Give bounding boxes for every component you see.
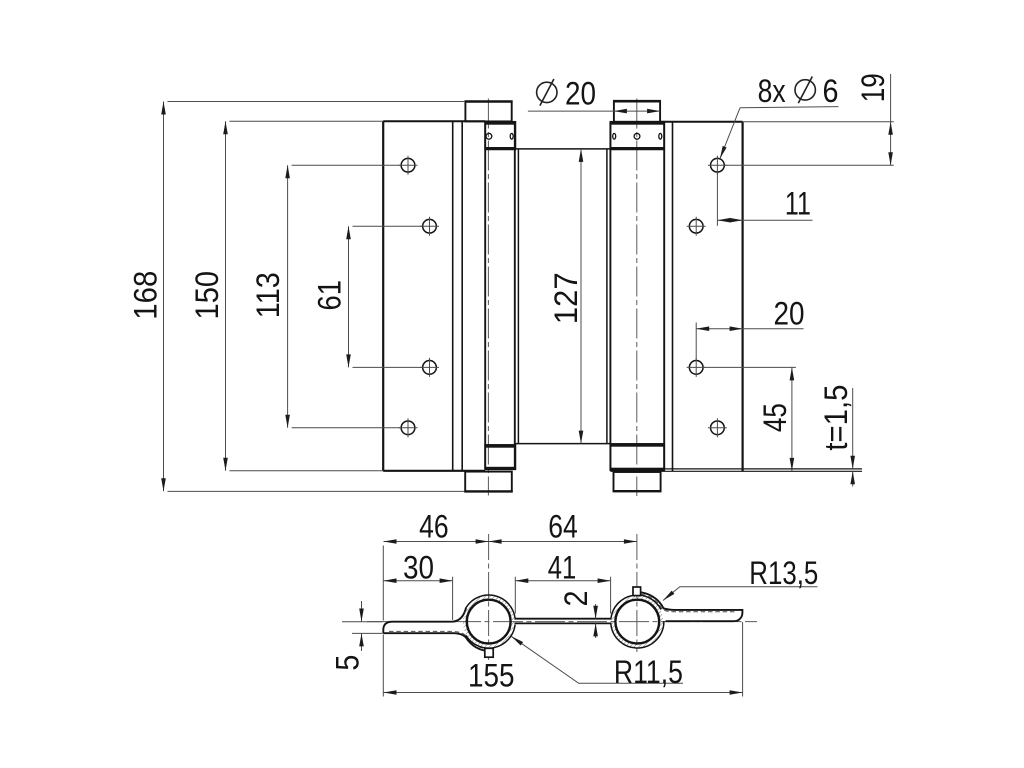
- svg-text:2: 2: [558, 591, 594, 607]
- left barrel top collar: [485, 122, 515, 150]
- svg-text:30: 30: [403, 549, 434, 585]
- right leaf profile: [638, 592, 742, 621]
- left barrel bottom collar: [485, 445, 515, 469]
- mounting holes left plate (8x d6): [399, 156, 440, 438]
- svg-text:41: 41: [548, 549, 577, 585]
- right knuckle ring: [611, 595, 664, 648]
- svg-text:6: 6: [823, 73, 839, 109]
- left knuckle ring: [464, 595, 515, 648]
- svg-text:45: 45: [757, 403, 793, 432]
- right knuckle vertical centerline: [636, 534, 638, 652]
- dimension t=1,5: [818, 385, 855, 487]
- svg-text:19: 19: [855, 73, 891, 102]
- dimension 2 (web thickness): [558, 591, 598, 639]
- svg-text:150: 150: [189, 271, 225, 320]
- svg-text:11: 11: [785, 186, 811, 222]
- svg-text:64: 64: [548, 509, 578, 545]
- left knuckle vertical centerline: [488, 534, 490, 660]
- dimension 113: [250, 165, 401, 428]
- svg-text:20: 20: [565, 76, 596, 112]
- dimension 46: [383, 509, 637, 621]
- right barrel centerline: [636, 99, 638, 497]
- left knuckle sheet-end tab: [485, 648, 493, 657]
- dimension 30: [384, 549, 453, 620]
- mounting holes right plate (8x d6): [687, 156, 727, 438]
- left leaf curl edge: [461, 121, 463, 470]
- right barrel silhouette: [610, 122, 664, 470]
- left leaf plate: [383, 121, 485, 471]
- top cap right: [613, 101, 661, 122]
- horizontal centerline: [367, 621, 757, 623]
- right barrel bottom collar: [610, 444, 664, 470]
- right knuckle sheet-end tab: [633, 587, 641, 596]
- dimension 19: [725, 73, 894, 165]
- label R13,5 with leader: [663, 555, 818, 600]
- connecting web: [515, 619, 612, 624]
- svg-text:t=1,5: t=1,5: [818, 385, 854, 451]
- svg-text:R11,5: R11,5: [614, 654, 683, 690]
- left barrel silhouette: [485, 122, 515, 470]
- dimension d20 (top cap): [528, 76, 660, 114]
- svg-text:8x: 8x: [758, 73, 786, 109]
- svg-text:5: 5: [330, 655, 366, 671]
- dimension 168: [128, 102, 465, 492]
- svg-text:168: 168: [128, 271, 164, 320]
- dimension 61: [312, 226, 423, 367]
- dimension 64: [489, 509, 637, 545]
- svg-text:113: 113: [250, 272, 286, 318]
- right barrel top collar: [610, 122, 664, 150]
- dimension 127: [548, 149, 584, 444]
- left barrel centerline: [487, 99, 489, 496]
- middle door leaf: [515, 149, 610, 444]
- top cap left: [465, 102, 513, 122]
- label R11,5 with leader: [511, 636, 683, 690]
- dimension 11: [717, 173, 812, 226]
- svg-text:61: 61: [312, 280, 348, 311]
- svg-text:R13,5: R13,5: [749, 555, 818, 591]
- label 8x d6 with leader: [720, 73, 839, 159]
- svg-text:127: 127: [548, 272, 584, 324]
- dimension 41: [515, 549, 610, 613]
- dimension 155: [383, 622, 742, 697]
- right leaf plate: [610, 122, 862, 472]
- left leaf profile: [383, 608, 486, 651]
- dimension 45: [704, 367, 796, 471]
- svg-text:20: 20: [774, 296, 805, 332]
- bottom cap left: [464, 472, 512, 492]
- svg-text:155: 155: [468, 657, 515, 693]
- svg-text:46: 46: [419, 509, 449, 545]
- bottom cap right: [613, 472, 662, 491]
- dimension 20 (hole to edge): [696, 296, 804, 360]
- dimension 150: [189, 121, 383, 471]
- dimension 5 (leaf height): [330, 601, 383, 671]
